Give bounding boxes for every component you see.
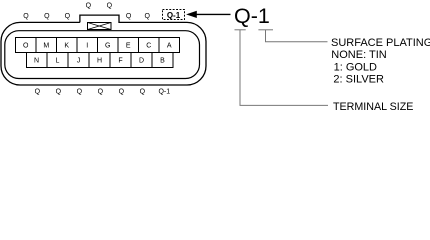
svg-text:I: I — [86, 42, 88, 49]
leader T cap under 1 — [258, 29, 273, 31]
top row divider 1 — [35, 38, 37, 53]
svg-text:NONE: TIN: NONE: TIN — [331, 49, 386, 61]
connector Q outer shell with locking tab — [1, 15, 206, 85]
bottom row divider 6 — [151, 53, 153, 68]
top row divider 7 — [158, 38, 160, 53]
top row divider 3 — [76, 38, 78, 53]
svg-text:2: SILVER: 2: SILVER — [333, 74, 384, 86]
svg-text:Q: Q — [65, 13, 71, 20]
svg-text:A: A — [167, 42, 172, 49]
connector inner outline — [5, 31, 200, 79]
svg-text:K: K — [64, 42, 69, 49]
arrow shaft — [196, 13, 231, 15]
svg-text:C: C — [146, 42, 151, 49]
top row divider 5 — [117, 38, 119, 53]
svg-text:M: M — [43, 42, 49, 49]
svg-text:Q: Q — [77, 89, 83, 96]
svg-text:Q: Q — [44, 13, 50, 20]
svg-text:Q: Q — [119, 89, 125, 96]
svg-text:Q: Q — [107, 3, 113, 10]
arrow head pointing left — [187, 11, 197, 17]
svg-text:SURFACE PLATING: SURFACE PLATING — [331, 37, 430, 49]
svg-text:Q: Q — [23, 13, 29, 20]
bottom row divider 1 — [46, 53, 48, 68]
locking tab bowtie box — [88, 23, 112, 30]
bottom row divider 4 — [109, 53, 111, 68]
svg-text:J: J — [77, 57, 81, 64]
svg-text:E: E — [126, 42, 131, 49]
leader T cap under Q — [235, 29, 246, 31]
svg-text:Q: Q — [86, 3, 92, 10]
svg-text:Q-1: Q-1 — [158, 89, 170, 96]
svg-text:Q: Q — [140, 89, 146, 96]
svg-text:N: N — [34, 57, 39, 64]
svg-text:Q: Q — [144, 13, 150, 20]
svg-text:TERMINAL SIZE: TERMINAL SIZE — [333, 101, 413, 113]
svg-text:Q: Q — [126, 13, 132, 20]
bottom pin row box — [27, 53, 174, 68]
svg-text:F: F — [118, 57, 122, 64]
svg-text:O: O — [23, 42, 29, 49]
svg-text:Q: Q — [35, 89, 41, 96]
bottom row divider 2 — [67, 53, 69, 68]
top pin row box — [16, 38, 180, 53]
svg-text:D: D — [139, 57, 144, 64]
svg-text:G: G — [105, 42, 110, 49]
leader elbow for surface plating — [266, 30, 328, 42]
svg-text:L: L — [56, 57, 60, 64]
top row divider 4 — [97, 38, 99, 53]
svg-text:Q: Q — [98, 89, 104, 96]
dashed highlight box Q-1 — [163, 10, 185, 20]
leader vertical for terminal size — [240, 30, 328, 106]
svg-text:Q-1: Q-1 — [167, 11, 181, 20]
top row divider 6 — [138, 38, 140, 53]
bowtie X diagonal 1 — [88, 23, 112, 30]
bottom row divider 5 — [130, 53, 132, 68]
bottom row divider 3 — [88, 53, 90, 68]
bowtie X diagonal 2 — [88, 23, 112, 30]
svg-text:H: H — [97, 57, 102, 64]
top row divider 2 — [56, 38, 58, 53]
svg-text:Q: Q — [56, 89, 62, 96]
svg-text:Q-1: Q-1 — [234, 4, 270, 28]
svg-text:B: B — [160, 57, 165, 64]
svg-text:1: GOLD: 1: GOLD — [334, 61, 377, 73]
